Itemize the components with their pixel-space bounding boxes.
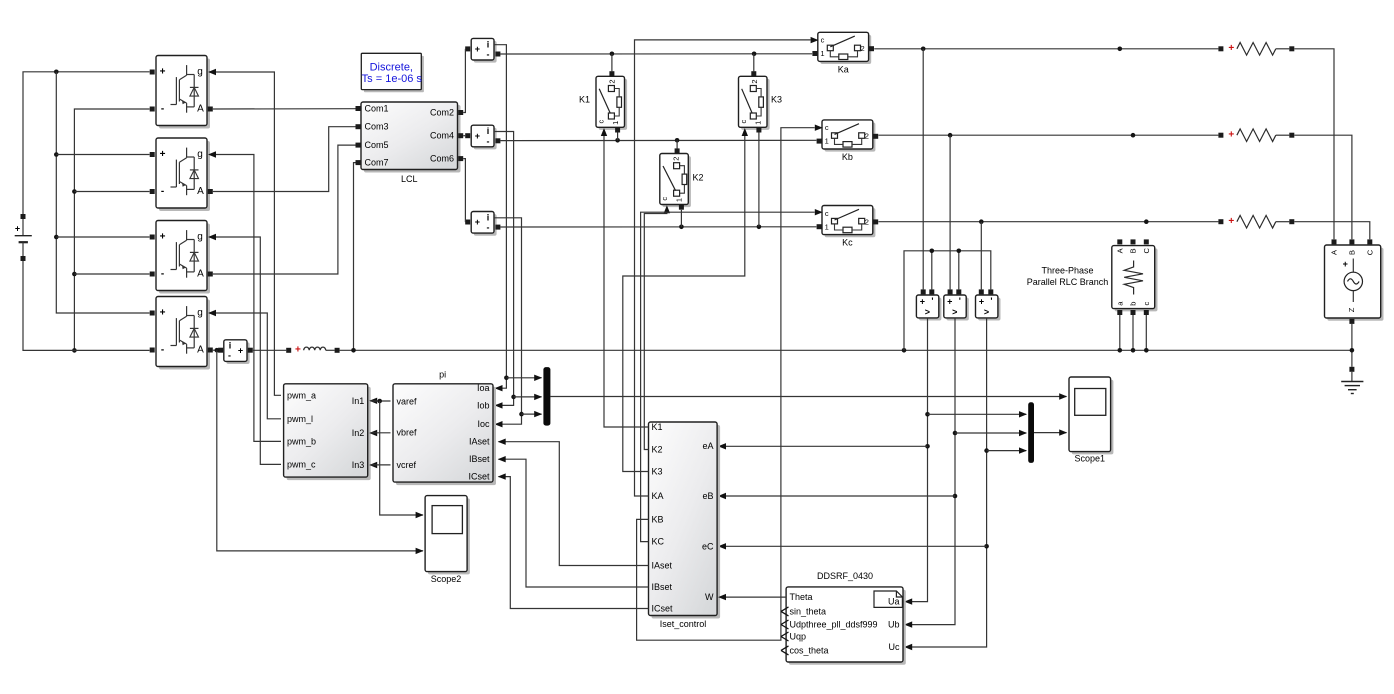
annotation: Discrete Ts = 1e-06 s (powergui) — [361, 53, 424, 92]
wire: current measurement to inductor — [253, 349, 286, 351]
svg-text:Com5: Com5 — [365, 140, 389, 150]
svg-text:+: + — [1228, 129, 1234, 140]
junction: K3-1 on phase C — [757, 225, 762, 230]
svg-text:Kb: Kb — [842, 152, 853, 162]
svg-text:+: + — [160, 308, 166, 319]
wire: neutral bus from inductor to AC source ground column — [340, 349, 1352, 351]
fault switch K3 — [739, 71, 783, 132]
svg-text:-: - — [487, 223, 490, 233]
svg-text:2: 2 — [750, 79, 759, 83]
subsystem LCL — [356, 102, 464, 184]
svg-text:g: g — [197, 67, 203, 78]
wire: pi vbref to pwm In2 — [371, 432, 391, 434]
svg-text:+: + — [295, 345, 301, 356]
svg-text:C: C — [1142, 248, 1151, 254]
wire: RLC c to neutral bus — [1144, 315, 1149, 353]
svg-text:Uqp: Uqp — [790, 632, 807, 642]
wire: RLC b to neutral bus — [1131, 315, 1136, 353]
wire: phase A down to Va + — [922, 49, 924, 290]
svg-text:-: - — [161, 186, 164, 197]
svg-text:+: + — [475, 217, 480, 227]
svg-text:': ' — [990, 296, 992, 306]
wire: K1 port1 down to phase B — [617, 132, 619, 140]
svg-text:A: A — [197, 345, 204, 356]
svg-text:+: + — [475, 44, 480, 54]
wire: IGBT1 A to LCL Com1 — [213, 108, 356, 110]
svg-text:1: 1 — [611, 121, 620, 125]
wire: meter A i-signal down to pi Ioa — [494, 45, 506, 392]
wire: K3 port1 down to phase C — [758, 132, 760, 226]
wire: mux2 output to Scope1 input 2 — [1034, 429, 1067, 435]
wire: resistor B to AC source B — [1294, 135, 1352, 239]
svg-text:1: 1 — [753, 121, 762, 125]
svg-text:-: - — [487, 136, 490, 146]
svg-text:g: g — [197, 232, 203, 243]
wire: positive bus down to IGBT4 + — [56, 72, 149, 313]
wire: resistor C to AC source C — [1294, 222, 1370, 240]
wire: - bus branch to IGBT3 - — [74, 273, 149, 275]
svg-text:2: 2 — [672, 157, 681, 161]
svg-text:A: A — [1330, 250, 1339, 255]
wire: pwm_a to IGBT1 g — [208, 69, 281, 396]
wire: tap down to Scope2 input 2 — [217, 350, 424, 554]
svg-text:ICset: ICset — [652, 604, 674, 614]
svg-text:cos_theta: cos_theta — [790, 645, 829, 655]
svg-text:eC: eC — [702, 541, 714, 551]
three-phase breaker Kc — [817, 206, 879, 248]
wire: phase B down to Vb + — [949, 135, 951, 289]
junction: voltage-measure common on bus — [902, 348, 907, 353]
svg-text:A: A — [197, 104, 204, 115]
subsystem pwm generator — [284, 384, 371, 480]
mux block (currents) — [543, 367, 550, 426]
junction: Va to mux2 — [925, 412, 930, 417]
svg-text:Ioc: Ioc — [477, 419, 490, 429]
svg-text:-: - — [487, 50, 490, 60]
junction: phase C tap to RLC branch — [1144, 219, 1149, 224]
junction: Vc to Iset eC — [984, 544, 989, 549]
svg-text:g: g — [197, 149, 203, 160]
svg-text:In1: In1 — [352, 396, 365, 406]
svg-text:varef: varef — [397, 396, 418, 406]
svg-text:Kc: Kc — [842, 238, 853, 248]
svg-text:pwm_a: pwm_a — [287, 390, 316, 400]
wire: LCL Com7 down to neutral bus — [354, 163, 356, 349]
wire: - bus branch to IGBT2 - — [74, 191, 149, 193]
svg-text:+: + — [160, 149, 166, 160]
Scope1 block — [1069, 377, 1113, 463]
wire: Kc output phase C to load — [878, 221, 1218, 223]
svg-text:+: + — [15, 224, 20, 234]
svg-text:IAset: IAset — [652, 561, 673, 571]
svg-text:eA: eA — [702, 441, 713, 451]
svg-text:Parallel RLC Branch: Parallel RLC Branch — [1027, 277, 1109, 287]
svg-text:c: c — [739, 119, 748, 123]
svg-text:i: i — [487, 213, 490, 223]
wire: K1 port2 up to phase A — [611, 54, 613, 72]
wire: Vc signal down to DDSRF Uc — [904, 318, 986, 650]
wire: pi varef to pwm In1 — [371, 400, 391, 402]
subsystem pi (current regulator) — [393, 369, 496, 485]
junction: Iob to mux — [511, 395, 516, 400]
junction: phase C tap to voltage measure — [979, 219, 984, 224]
svg-text:Discrete,: Discrete, — [370, 61, 413, 73]
svg-text:B: B — [1347, 250, 1356, 255]
voltage measurement block Vb — [944, 289, 969, 320]
svg-text:c: c — [825, 123, 829, 132]
svg-text:Z: Z — [1347, 307, 1356, 312]
junction: neutral bus to AC ground — [1350, 348, 1355, 353]
DC voltage source (battery) — [15, 214, 32, 261]
svg-text:W: W — [705, 592, 714, 602]
wire: Iset ICset to pi ICset — [498, 473, 649, 608]
junction: + bus to IGBT3 — [54, 235, 59, 240]
svg-text:Com1: Com1 — [365, 104, 389, 114]
svg-text:Three-Phase: Three-Phase — [1041, 266, 1093, 276]
wire: IGBT4 A to current measurement — [213, 349, 218, 351]
wire: Vb signal down to DDSRF Ub — [904, 318, 955, 628]
wire: Iset KC to breaker Kc c — [641, 209, 823, 542]
svg-text:+: + — [160, 232, 166, 243]
junction: varef tap to Scope2 — [377, 399, 382, 404]
junction: Vb to mux2 — [953, 431, 958, 436]
wire: pi vcref to pwm In3 — [371, 464, 391, 466]
svg-text:Ioa: Ioa — [477, 383, 490, 393]
svg-text:i: i — [487, 39, 490, 49]
wire: Iset K3 to switch K3 c — [623, 128, 748, 472]
svg-text:c: c — [825, 209, 829, 218]
svg-text:i: i — [487, 126, 490, 136]
svg-text:In2: In2 — [352, 428, 365, 438]
svg-text:Iob: Iob — [477, 400, 490, 410]
fault switch K2 — [660, 148, 704, 209]
phase current measurement ic — [465, 212, 500, 236]
svg-text:K1: K1 — [652, 422, 663, 432]
svg-text:c: c — [1142, 301, 1151, 305]
wire: + bus branch to IGBT2 + — [56, 154, 149, 156]
phase current measurement ib — [465, 125, 500, 149]
wire: Va signal down to DDSRF Ua — [904, 318, 927, 605]
wire: voltage measurement common to neutral bus — [904, 249, 991, 351]
mux block (voltages) — [1028, 402, 1034, 463]
wire: meter C i-signal down to pi Ioc — [494, 218, 522, 428]
load resistor phase B — [1218, 129, 1294, 142]
junction: + bus to IGBT2 — [54, 152, 59, 157]
wire: Vc branch to mux2 — [987, 447, 1027, 453]
svg-text:DDSRF_0430: DDSRF_0430 — [817, 571, 873, 581]
junction: Vc to mux2 — [984, 448, 989, 453]
wire: pwm_l to IGBT4 g — [208, 310, 281, 419]
junction: phase A tap to voltage measure — [921, 47, 926, 52]
svg-text:': ' — [959, 296, 961, 306]
svg-text:1: 1 — [675, 198, 684, 202]
load resistor phase C — [1218, 215, 1294, 228]
wire: Vc branch to Iset_control eC — [718, 543, 987, 549]
junction: K3-2 on phase A — [752, 52, 757, 57]
IGBT half-bridge leg block 2 — [150, 138, 213, 211]
svg-text:vbref: vbref — [397, 428, 418, 438]
svg-text:+: + — [238, 345, 243, 355]
three-phase parallel RLC branch block — [1112, 239, 1158, 315]
arrow: vbref into pwm In2 — [369, 430, 377, 436]
junction: tap to Scope2 — [215, 348, 220, 353]
IGBT half-bridge leg block 3 — [150, 221, 213, 294]
wire: Ka output phase A to load — [874, 48, 1218, 50]
wire: Va branch to mux2 — [928, 411, 1028, 417]
svg-text:A: A — [197, 186, 204, 197]
svg-text:K2: K2 — [693, 173, 704, 183]
svg-text:+: + — [1343, 259, 1348, 269]
svg-text:-: - — [161, 345, 164, 356]
series inductor (neutral branch) — [286, 345, 339, 356]
svg-text:1: 1 — [825, 222, 829, 231]
junction: - bus meets battery - wire — [72, 348, 77, 353]
wire: K2 port1 down to phase C — [680, 210, 682, 227]
wire: phase C line meter to breaker Kc — [500, 226, 816, 228]
svg-text:B: B — [1129, 248, 1138, 253]
svg-text:-: - — [161, 269, 164, 280]
svg-text:>: > — [952, 307, 957, 317]
svg-text:b: b — [1129, 302, 1138, 306]
svg-text:Com3: Com3 — [365, 122, 389, 132]
load resistor phase A — [1218, 43, 1294, 56]
svg-text:pwm_b: pwm_b — [287, 436, 316, 446]
junction: K1-1 on phase B — [615, 138, 620, 143]
IGBT half-bridge leg block 1 — [150, 56, 213, 129]
label: Three-Phase Parallel RLC Branch — [1027, 266, 1109, 288]
voltage measurement block Va — [916, 289, 941, 320]
svg-text:K3: K3 — [771, 95, 782, 105]
wire: Kb output phase B to load — [878, 134, 1218, 136]
junction: - bus to IGBT2 — [72, 189, 77, 194]
svg-text:Ts = 1e-06 s: Ts = 1e-06 s — [362, 73, 423, 85]
wire: mux output to Scope1 input 1 — [550, 393, 1067, 399]
svg-text:K1: K1 — [579, 95, 590, 105]
junction: K2-1 on phase C — [679, 225, 684, 230]
fault switch K1 — [579, 71, 627, 132]
svg-text:A: A — [197, 269, 204, 280]
svg-text:Scope1: Scope1 — [1075, 453, 1106, 463]
subsystem Iset_control — [649, 422, 721, 629]
wire: LCL Com2 to meter A + — [463, 49, 465, 113]
junction: Vb to Iset eB — [953, 494, 958, 499]
svg-text:1: 1 — [825, 137, 829, 146]
svg-text:2: 2 — [865, 217, 869, 226]
ground symbol — [1341, 367, 1363, 394]
svg-text:sin_theta: sin_theta — [790, 606, 827, 616]
svg-text:Ub: Ub — [888, 620, 900, 630]
junction: Com7 branch on neutral bus — [351, 348, 356, 353]
wire: RLC a to neutral bus — [1118, 315, 1123, 353]
svg-text:c: c — [660, 197, 669, 201]
svg-text:+: + — [979, 297, 984, 307]
junction: Ioc to mux — [519, 412, 524, 417]
svg-text:A: A — [1115, 248, 1124, 253]
junction: K2-2 on phase B — [675, 138, 680, 143]
svg-text:2: 2 — [865, 132, 869, 141]
wire: DDSRF Theta to Iset_control W — [718, 594, 786, 600]
svg-text:>: > — [984, 307, 989, 317]
svg-text:1: 1 — [820, 49, 824, 58]
svg-text:i: i — [229, 340, 232, 350]
wire: pwm_c to IGBT3 g — [208, 234, 281, 465]
svg-text:ICset: ICset — [468, 472, 490, 482]
junction: phase B tap to voltage measure — [948, 133, 953, 138]
svg-text:K2: K2 — [652, 445, 663, 455]
wire: Iset K2 to switch K2 c — [644, 205, 670, 449]
svg-text:Com7: Com7 — [365, 158, 389, 168]
input chevron: DDSRF cos_theta — [781, 646, 789, 655]
svg-text:g: g — [197, 308, 203, 319]
svg-text:eB: eB — [702, 491, 713, 501]
junction: phase B tap to RLC branch — [1131, 133, 1136, 138]
three-phase breaker Ka — [812, 32, 874, 74]
svg-text:IBset: IBset — [469, 454, 490, 464]
wire: resistor A to AC source A — [1294, 49, 1334, 240]
wire: AC source neutral down to ground — [1351, 324, 1353, 367]
svg-text:+: + — [920, 297, 925, 307]
wire: Vb branch to Iset_control eB — [718, 493, 955, 499]
svg-text:Com2: Com2 — [430, 108, 454, 118]
svg-text:KA: KA — [652, 491, 664, 501]
svg-text:+: + — [1228, 43, 1234, 54]
svg-text:Uc: Uc — [889, 642, 900, 652]
wire: LCL Com4 to meter B + — [463, 135, 465, 137]
wire: Iset KB to breaker Kb c — [637, 125, 823, 641]
svg-text:IBset: IBset — [652, 582, 673, 592]
svg-text:vcref: vcref — [397, 460, 417, 470]
junction: positive rail tap — [54, 70, 59, 75]
IGBT half-bridge leg block 4 — [150, 297, 213, 370]
svg-text:2: 2 — [608, 79, 617, 83]
arrow: varef into pwm In1 — [369, 398, 377, 404]
wire: phase A line meter to breaker Ka — [500, 53, 812, 55]
three-phase breaker Kb — [817, 120, 879, 162]
wire: Vb branch to mux2 — [955, 430, 1027, 436]
wire: K3 port2 up to phase A — [753, 54, 755, 72]
phase current measurement ia — [465, 38, 500, 62]
svg-text:pwm_c: pwm_c — [287, 459, 316, 469]
wire: Ioc branch to mux — [522, 411, 543, 417]
wire: Iset K1 to switch K1 c — [601, 128, 649, 427]
svg-text:pi: pi — [439, 369, 446, 379]
junction: Va to Iset eA — [925, 444, 930, 449]
wire: negative bus from IGBT1 - — [74, 109, 149, 350]
wire: pwm_b to IGBT2 g — [208, 151, 281, 441]
wire: phase B line meter to breaker Kb — [500, 139, 816, 141]
svg-text:-: - — [161, 104, 164, 115]
svg-text:-: - — [228, 351, 231, 361]
wire: IGBT2 A to LCL Com3 — [213, 127, 356, 192]
subsystem DDSRF_0430 (PLL) — [786, 571, 906, 665]
svg-text:K3: K3 — [652, 467, 663, 477]
wire: phase C down to Vc + — [980, 222, 982, 290]
svg-text:c: c — [596, 119, 605, 123]
wire: Iset IAset to pi IAset — [498, 439, 649, 566]
svg-text:KC: KC — [652, 537, 665, 547]
junction: Ioa to mux — [504, 376, 509, 381]
wire: K2 port2 up to phase B — [676, 140, 678, 148]
junction: - bus to IGBT3 — [72, 272, 77, 277]
svg-text:Ua: Ua — [888, 597, 900, 607]
svg-text:In3: In3 — [352, 460, 365, 470]
three-phase AC source block — [1325, 239, 1384, 324]
wire: battery - to IGBT4 - — [23, 261, 150, 350]
wire: + bus branch to IGBT3 + — [56, 236, 149, 238]
svg-text:+: + — [947, 297, 952, 307]
junction: K1-2 on phase A — [610, 52, 615, 57]
wire: Iob branch to mux — [514, 394, 543, 400]
svg-text:Scope2: Scope2 — [431, 574, 462, 584]
voltage measurement block Vc — [976, 289, 1001, 320]
svg-text:2: 2 — [861, 44, 865, 53]
svg-text:c: c — [821, 36, 825, 45]
svg-text:': ' — [931, 296, 933, 306]
input chevron: DDSRF sin_theta — [781, 607, 789, 616]
wire: Iset KA to breaker Ka c — [635, 37, 819, 496]
svg-text:Iset_control: Iset_control — [660, 619, 707, 629]
svg-text:+: + — [160, 67, 166, 78]
junction: phase A tap to RLC branch — [1118, 47, 1123, 52]
current measurement block (DC link) — [218, 340, 253, 364]
svg-text:Udpthree_pll_ddsf999: Udpthree_pll_ddsf999 — [790, 620, 878, 630]
wire: battery + up to positive rail — [23, 72, 150, 214]
svg-text:LCL: LCL — [401, 174, 418, 184]
Scope2 block — [425, 496, 470, 584]
wire: Iset IBset to pi IBset — [498, 456, 649, 587]
wire: IGBT3 A to LCL Com5 — [213, 145, 356, 274]
wire: meter B i-signal down to pi Iob — [494, 132, 514, 409]
svg-text:Com4: Com4 — [430, 131, 454, 141]
input chevron: DDSRF Udpthree — [781, 620, 789, 629]
svg-text:IAset: IAset — [469, 437, 490, 447]
wire: varef tap down to Scope2 input 1 — [380, 401, 424, 518]
svg-text:Ka: Ka — [838, 65, 849, 75]
svg-text:+: + — [1228, 216, 1234, 227]
wire: Ioa branch to mux — [506, 375, 542, 381]
svg-text:Theta: Theta — [790, 592, 813, 602]
svg-text:C: C — [1365, 249, 1374, 255]
svg-text:Com6: Com6 — [430, 154, 454, 164]
svg-text:pwm_l: pwm_l — [287, 414, 313, 424]
svg-text:>: > — [925, 307, 930, 317]
input chevron: DDSRF Uqp — [781, 632, 789, 641]
svg-text:+: + — [475, 131, 480, 141]
wire: LCL Com6 to meter C + — [463, 159, 465, 222]
arrow: vcref into pwm In3 — [369, 462, 377, 468]
svg-text:KB: KB — [652, 514, 664, 524]
wire: Va branch to Iset_control eA — [718, 443, 928, 449]
